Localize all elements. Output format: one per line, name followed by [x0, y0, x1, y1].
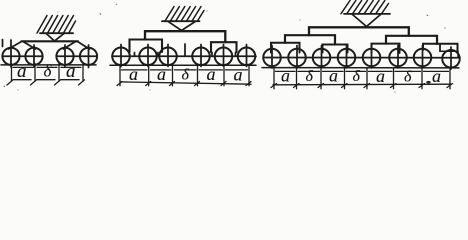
- svg-text:δ: δ: [306, 68, 314, 85]
- spring hanger stubs S2: [135, 44, 236, 56]
- stray edge mark left: [2, 40, 4, 47]
- wheel W3-4: [338, 49, 356, 67]
- svg-text:a: a: [432, 66, 441, 86]
- pivot triangle S1: [46, 33, 64, 41]
- wheel W3-7: [414, 49, 432, 67]
- coupling bar S3: [264, 57, 459, 59]
- coupling bar S2: [112, 55, 256, 57]
- svg-text:δ: δ: [353, 68, 361, 85]
- right sub-balancer lever S1: [64, 42, 76, 50]
- svg-text:a: a: [157, 64, 166, 84]
- rail line S3: [262, 67, 459, 69]
- main balancer beam S3: [309, 27, 409, 36]
- svg-text:δ: δ: [404, 69, 412, 86]
- dimension cell top lines S3: [276, 70, 449, 72]
- support hatching S3: [341, 1, 389, 14]
- small spring link over W3-8: [440, 51, 458, 57]
- support base line S2: [162, 20, 200, 22]
- dimension ticks S2: [117, 65, 251, 86]
- wheel W2-2: [139, 48, 157, 66]
- svg-text:a: a: [376, 66, 385, 86]
- support hatching S1: [37, 16, 76, 34]
- rail line S2: [110, 64, 256, 66]
- left sub-balancer lever S1: [9, 42, 22, 50]
- pair bracket P1 S3: [271, 43, 300, 53]
- wheel W2-4: [192, 48, 210, 66]
- wheel W3-2: [288, 49, 306, 67]
- dimension cell top lines S1: [13, 66, 81, 68]
- svg-text:a: a: [129, 64, 138, 84]
- svg-text:a: a: [66, 61, 76, 82]
- svg-text:δ: δ: [44, 61, 53, 80]
- wheel W3-5: [363, 49, 381, 67]
- wheel W1-2: [25, 48, 42, 65]
- wheel W1-4: [80, 48, 97, 65]
- wheel W3-8: [442, 50, 460, 68]
- svg-text:a: a: [329, 66, 338, 86]
- wheel W1-3: [56, 48, 73, 65]
- svg-text:a: a: [17, 61, 27, 82]
- dimension ticks S3: [271, 69, 453, 89]
- svg-text:a: a: [281, 66, 290, 86]
- svg-text:a: a: [234, 65, 243, 85]
- pair bracket P2 S3: [323, 45, 348, 53]
- svg-text:a: a: [207, 64, 216, 84]
- right equalizer bracket S2: [211, 42, 237, 52]
- wheel W2-5: [215, 48, 233, 66]
- rail line S1: [1, 64, 96, 66]
- wheel W2-1: [112, 48, 130, 66]
- pivot triangle S2: [168, 21, 196, 30]
- right 2nd-level beam S3: [386, 36, 437, 44]
- dimension cell top lines S2: [122, 69, 248, 71]
- pivot triangle S3: [352, 14, 381, 26]
- pair bracket P3 S3: [372, 44, 400, 53]
- dimension cell bottom dashes S1: [14, 79, 80, 81]
- support base line S1: [40, 32, 73, 34]
- wheel W3-6: [389, 49, 407, 67]
- dimension ticks S1: [7, 64, 85, 86]
- wheel W2-3: [159, 48, 177, 66]
- svg-text:δ: δ: [182, 67, 190, 84]
- wheel W3-3: [313, 49, 331, 67]
- wheel W3-1: [263, 49, 281, 67]
- wheel W2-6: [238, 48, 256, 66]
- main balancer beam S1: [22, 40, 79, 42]
- coupling bar axles 1-2: [3, 55, 42, 57]
- ink stain: [426, 81, 430, 84]
- support hatching S2: [165, 7, 204, 22]
- dimension bottom line S3: [273, 83, 451, 86]
- pair bracket P4 S3: [423, 44, 458, 51]
- left equalizer bracket S2: [130, 40, 163, 53]
- main balancer beam S2: [145, 31, 225, 42]
- speck noise: [4, 14, 428, 87]
- dimension bottom line S2: [120, 82, 251, 84]
- wheel W1-1: [2, 48, 19, 65]
- left 2nd-level beam S3: [285, 35, 335, 44]
- support base line S3: [344, 13, 390, 15]
- scan dust: [17, 4, 445, 93]
- coupling bar axles 3-4: [57, 55, 98, 57]
